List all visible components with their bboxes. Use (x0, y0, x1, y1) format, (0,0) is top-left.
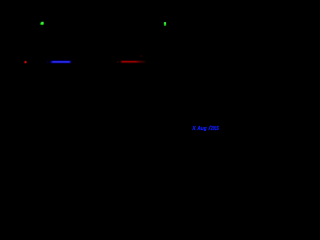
wire W1 (blue glowing segment) (51, 61, 71, 63)
LED D2 (green, lit, right) (164, 22, 167, 26)
node (dim blue dot left of W1) (47, 62, 48, 63)
svg-text:Aug: Aug (197, 126, 208, 132)
svg-text:2015: 2015 (210, 126, 219, 132)
LED D1 (green, lit, left) (40, 22, 44, 26)
date watermark "X Aug / 2015" (blue) (191, 125, 218, 132)
LED D3 (red, lit, left) (24, 61, 27, 64)
node (dim red dot left of W2) (117, 62, 118, 63)
wire W2 (dark red glowing segment, fading right) (121, 61, 146, 63)
node (dim red speck upper) (140, 55, 141, 56)
